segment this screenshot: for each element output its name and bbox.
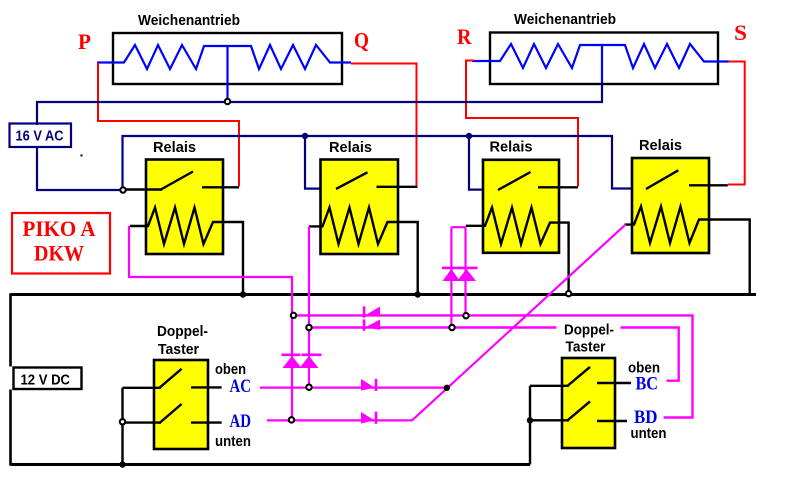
stray ink speck	[81, 155, 83, 157]
node circle relay common	[120, 187, 125, 192]
pushbutton T2 upper switch (oben)	[567, 367, 631, 386]
svg-text:Relais: Relais	[490, 140, 533, 156]
wire navy 16VAC top bus to both coil center taps	[37, 83, 602, 125]
svg-text:BC: BC	[636, 375, 659, 395]
node circle W1 center tap	[225, 99, 230, 104]
svg-text:oben: oben	[215, 362, 246, 378]
wire magenta relay K1 coil feed	[129, 226, 292, 420]
svg-text:S: S	[734, 20, 747, 45]
wire black T1 common leads	[123, 388, 162, 465]
junction dot K1 coil to plus bus	[240, 291, 246, 297]
svg-text:Relais: Relais	[329, 140, 372, 156]
diode D7 (net AC line, right)	[361, 379, 377, 391]
wire magenta net BC line	[309, 328, 679, 381]
label Relais 3	[490, 140, 533, 156]
wire magenta net BD line	[292, 315, 693, 417]
switch drive 2 box (Weichenantrieb)	[490, 33, 718, 85]
pushbutton T1 upper switch (oben)	[159, 369, 222, 388]
terminal label R	[457, 24, 473, 49]
relay K4 switch contact	[646, 170, 728, 189]
pushbutton T1 lower switch (unten)	[159, 404, 222, 423]
node circle K3 coil to plus bus	[566, 291, 571, 296]
svg-text:PIKO A: PIKO A	[23, 216, 96, 241]
PIKO A DKW title box	[12, 213, 110, 274]
svg-text:unten: unten	[215, 434, 251, 450]
terminal label Q	[354, 28, 369, 53]
label unten T2	[631, 426, 667, 442]
svg-text:BD: BD	[634, 408, 658, 428]
terminal label S	[734, 20, 747, 45]
svg-text:Q: Q	[354, 28, 369, 53]
label Doppel-Taster 1	[157, 324, 208, 358]
relay K3 coil	[466, 208, 569, 294]
svg-text:Taster: Taster	[158, 342, 199, 358]
diode D1 (on K1 feed, up)	[282, 354, 302, 369]
coil W2 with center tap	[472, 44, 729, 84]
net label BC	[636, 375, 659, 395]
diode D5 (net BD line, left)	[363, 306, 380, 317]
terminal label P	[78, 29, 91, 54]
node circle T1 common	[120, 419, 125, 424]
svg-text:Doppel-: Doppel-	[157, 324, 208, 340]
junction dot T2 common	[527, 417, 533, 423]
wire black 12VDC box bottom lead	[9, 390, 12, 466]
svg-text:Weichenantrieb: Weichenantrieb	[514, 12, 616, 28]
svg-text:Relais: Relais	[153, 140, 196, 156]
svg-text:Doppel-: Doppel-	[564, 323, 614, 339]
svg-text:DKW: DKW	[34, 241, 84, 266]
wire red P to relay1 output	[98, 63, 239, 187]
wire magenta net AC line	[260, 387, 447, 389]
svg-text:Relais: Relais	[639, 138, 682, 154]
wire navy 16VAC bottom to relay common node	[37, 147, 123, 190]
relay K4 box	[632, 158, 709, 253]
net label BD	[634, 408, 658, 428]
svg-text:R: R	[457, 24, 473, 49]
svg-text:16 V AC: 16 V AC	[16, 129, 64, 145]
diode D8 (net AD line, right)	[361, 412, 377, 424]
pushbutton T2 lower switch (unten)	[567, 401, 627, 421]
junction dot K2 coil to plus bus	[415, 291, 421, 297]
label oben T1	[215, 362, 246, 378]
svg-text:AD: AD	[230, 412, 252, 432]
relay K2 box	[321, 160, 399, 255]
wire navy branch to relay3 switch	[469, 136, 500, 190]
wire magenta net AD line and diagonal to relay K4	[267, 225, 626, 421]
svg-text:12 V DC: 12 V DC	[21, 373, 71, 389]
wire black T2 common leads	[530, 386, 569, 465]
junction dot relay bus / relay3	[466, 133, 472, 139]
wire red R to relay3 output	[466, 61, 578, 187]
relay K1 box	[146, 160, 223, 255]
diode D6 (net BC line, left)	[363, 319, 380, 330]
wire magenta relay K2 coil feed	[308, 226, 310, 387]
wire black 12VDC box top lead	[9, 294, 12, 367]
relay K2 coil	[309, 208, 418, 295]
label Weichenantrieb 2	[514, 12, 616, 28]
junction dot AC line to diagonal	[444, 385, 450, 391]
net label AD	[230, 412, 252, 432]
wire magenta relay K3 coil feed	[451, 227, 466, 327]
svg-text:P: P	[78, 29, 91, 54]
diode D3 (on K3 feed left, up)	[442, 267, 460, 281]
wire navy branch to relay2 switch	[305, 136, 338, 189]
junction dot T1 common to minus bus	[119, 461, 125, 467]
coil W1 with center tap	[97, 45, 351, 102]
svg-text:Weichenantrieb: Weichenantrieb	[138, 13, 240, 29]
pushbutton T2 box (Doppel-Taster)	[562, 358, 615, 448]
node circle K2 feed / BC line	[306, 325, 311, 330]
label Relais 2	[329, 140, 372, 156]
relay K3 box	[483, 160, 559, 253]
relay K4 coil	[625, 207, 750, 295]
pushbutton T1 box (Doppel-Taster)	[154, 360, 208, 449]
svg-text:Taster: Taster	[566, 340, 606, 356]
relay K1 coil	[130, 208, 243, 295]
node circle K1 feed / BD line	[291, 313, 296, 318]
svg-text:AC: AC	[230, 377, 252, 397]
relay K2 switch contact	[336, 172, 418, 189]
switch drive 1 box (Weichenantrieb)	[113, 33, 342, 84]
wire black 12V minus bus (bottom)	[11, 463, 531, 466]
label Relais 1	[153, 140, 196, 156]
12 V DC source box	[14, 368, 82, 390]
svg-text:unten: unten	[631, 426, 667, 442]
relay K3 switch contact	[498, 172, 578, 190]
diode D2 (on K2 feed, up)	[300, 354, 322, 369]
label unten T1	[215, 434, 251, 450]
net label AC	[230, 377, 252, 397]
label oben T2	[628, 361, 660, 377]
wire navy relay common bus	[123, 136, 649, 190]
diode D4 (on K3 feed right, up)	[457, 267, 478, 281]
label Doppel-Taster 2	[557, 319, 621, 356]
wire red S to relay4 output	[728, 62, 745, 185]
relay K1 switch contact	[123, 172, 239, 191]
wire black 12V plus bus (top)	[11, 293, 757, 296]
label Relais 4	[639, 138, 682, 154]
node circle K3 right feed / BD line	[463, 313, 468, 318]
node circle K2 feed / AC line	[306, 385, 311, 390]
node circle K1 feed / AD line	[289, 417, 294, 422]
junction dot relay bus / relay2	[302, 133, 308, 139]
16 V AC source box	[10, 124, 72, 148]
wire red Q to relay2 output	[351, 64, 417, 186]
label Weichenantrieb 1	[138, 13, 240, 29]
node circle K3 left feed / BC line	[449, 325, 454, 330]
